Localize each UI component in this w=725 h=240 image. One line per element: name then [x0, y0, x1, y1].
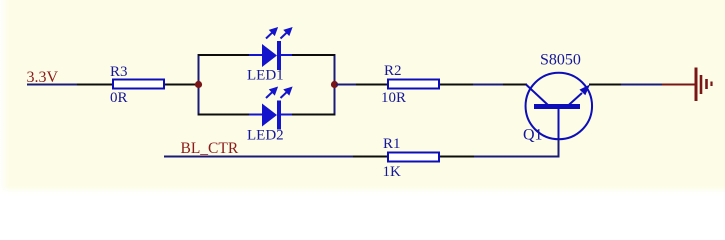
svg-text:10R: 10R — [381, 90, 406, 106]
svg-text:0R: 0R — [110, 90, 128, 106]
svg-text:1K: 1K — [383, 164, 402, 180]
svg-text:3.3V: 3.3V — [27, 69, 59, 86]
svg-text:LED2: LED2 — [247, 128, 284, 144]
svg-text:R1: R1 — [383, 136, 401, 152]
svg-text:R2: R2 — [384, 63, 402, 79]
svg-text:LED1: LED1 — [247, 68, 284, 84]
svg-text:S8050: S8050 — [540, 52, 581, 69]
svg-text:R3: R3 — [110, 64, 128, 80]
svg-text:BL_CTR: BL_CTR — [181, 140, 239, 157]
svg-text:Q1: Q1 — [523, 127, 543, 144]
